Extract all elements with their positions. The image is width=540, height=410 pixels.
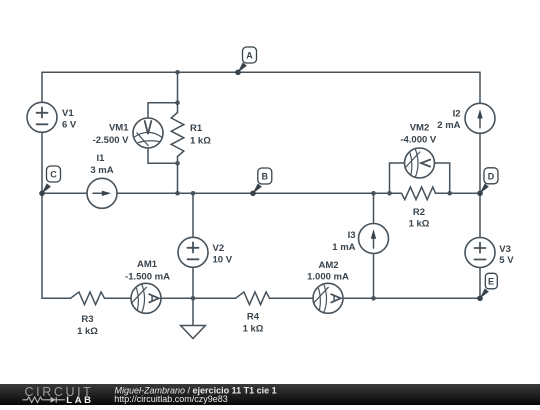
resistor R2 [402,187,436,200]
svg-text:R4: R4 [247,312,260,323]
junction I3 top on mid wire [371,191,376,196]
node E [477,273,497,301]
current source I2 [465,103,495,133]
wire V2 branch lower [192,267,194,298]
wire AM2 to E corner [343,297,480,299]
voltage source V3 [465,238,495,268]
ammeter AM1 [131,283,161,313]
junction I3 bottom on bottom wire [371,296,376,301]
svg-text:3 mA: 3 mA [90,165,113,176]
wire right vertical V3 to D [479,133,481,237]
svg-text:VM1: VM1 [109,123,129,134]
wire I3 branch lower [373,254,375,299]
svg-text:-4.000 V: -4.000 V [400,134,437,145]
voltage source V2 [178,237,208,267]
resistor R1 [171,113,184,157]
wire R4 to AM2 [270,297,314,299]
svg-text:D: D [488,171,495,181]
wire top horizontal A-net [42,71,480,73]
wire left vertical V1 to C to R3 corner [41,132,43,298]
svg-text:A: A [246,51,253,61]
svg-text:VM2: VM2 [410,123,430,134]
junction top of R1 branch [175,70,180,75]
svg-text:I1: I1 [97,153,106,164]
svg-text:http://circuitlab.com/czy9e83: http://circuitlab.com/czy9e83 [114,394,228,404]
svg-text:I2: I2 [453,109,461,120]
svg-text:10 V: 10 V [213,255,233,266]
junction R2 right [447,191,452,196]
resistor R3 [71,292,105,305]
svg-text:C: C [50,170,57,180]
wire VM2 right vertical [449,163,451,193]
voltmeter VM1 [133,118,163,148]
wire VM1 top stub [148,103,178,118]
svg-text:1 mA: 1 mA [332,242,355,253]
wire right vertical E to V3 [479,268,481,299]
wire VM2 right stub [435,162,450,164]
svg-text:R2: R2 [413,207,425,218]
svg-text:AM1: AM1 [137,259,158,270]
wire R1 branch bottom stub [177,157,179,194]
junction V2 bottom on bottom wire [191,296,196,301]
junction R2 left [387,191,392,196]
svg-text:1 kΩ: 1 kΩ [77,326,98,337]
wire I3 branch upper [373,193,375,223]
ammeter AM2 [313,283,343,313]
node B [250,168,272,196]
node A [235,47,256,75]
svg-text:6 V: 6 V [62,120,77,131]
svg-text:E: E [488,277,494,287]
svg-text:V2: V2 [213,243,225,254]
wire R1 branch top stub [177,72,179,112]
wire right vertical I2 to top [479,72,481,103]
wire ground stub [192,298,194,325]
wire middle horizontal C to I1 [42,192,87,194]
svg-text:R1: R1 [190,123,203,134]
svg-text:1 kΩ: 1 kΩ [190,135,211,146]
svg-text:-1.500 mA: -1.500 mA [125,272,170,283]
wire VM2 left vertical [389,163,391,193]
ground [181,326,206,339]
current source I1 [87,178,117,208]
voltage source V1 [27,102,57,132]
junction R1 bottom on mid wire [175,191,180,196]
svg-text:2 mA: 2 mA [437,120,460,131]
junction V2 top on mid wire [191,191,196,196]
junction VM1 bottom [175,161,180,166]
wire middle horizontal I1 to R2 [117,192,402,194]
wire AM1 to R4 (junction at V2/gnd) [161,297,236,299]
svg-text:AM2: AM2 [318,260,338,271]
svg-text:B: B [262,172,269,182]
wire VM2 left stub [390,162,405,164]
svg-text:1 kΩ: 1 kΩ [243,323,264,334]
resistor R4 [236,292,270,305]
wire middle horizontal R2 to D [436,192,481,194]
svg-text:-2.500 V: -2.500 V [93,135,130,146]
svg-text:V3: V3 [499,244,511,255]
svg-text:1.000 mA: 1.000 mA [307,271,349,282]
current source I3 [359,224,389,254]
svg-text:I3: I3 [348,230,356,241]
junction VM1 top [175,100,180,105]
logo resistor-diode squiggle [23,397,66,403]
wire R3 to AM1 [105,297,132,299]
svg-text:LAB: LAB [66,395,93,405]
wire V2 branch upper [192,193,194,237]
wire VM1 bottom stub [148,148,178,163]
wire left vertical top (to V1) [41,72,43,102]
wire bottom-left to R3 [42,297,71,299]
svg-text:1 kΩ: 1 kΩ [409,218,430,229]
svg-text:V1: V1 [62,108,74,119]
node D [477,168,498,196]
voltmeter VM2 [405,148,435,178]
svg-text:5 V: 5 V [499,255,514,266]
node C [39,166,60,196]
svg-text:R3: R3 [81,314,93,325]
